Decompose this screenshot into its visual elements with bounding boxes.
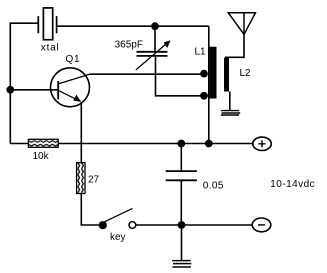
ground (supply side) [172, 261, 191, 267]
svg-text:Q1: Q1 [66, 54, 81, 65]
crystal xtal [38, 8, 56, 40]
wire: L1 vertical line from top rail to +V rail [208, 26, 210, 143]
wire: base wire [10, 89, 58, 91]
wire: minus rail junction down to ground [181, 225, 183, 260]
node: L1 line to +V rail [205, 140, 213, 148]
variable capacitor C1 365pF [136, 40, 171, 70]
+V rail wire [10, 143, 253, 145]
wire: L2 to ground [229, 92, 231, 111]
svg-text:10k: 10k [33, 151, 50, 162]
inductor L1 (coil bar) [210, 47, 217, 99]
wire: resistor 27 to key [81, 194, 99, 226]
resistor 10k [28, 139, 58, 147]
svg-text:key: key [110, 232, 126, 243]
inductor L2 (coil bar) [224, 58, 229, 92]
resistor 27 [77, 163, 85, 194]
terminal + (positive supply) [253, 137, 272, 150]
svg-text:365pF: 365pF [115, 40, 143, 51]
node: base junction on left rail [6, 86, 14, 94]
svg-text:xtal: xtal [41, 43, 60, 54]
key switch [99, 209, 136, 230]
wire: key to minus terminal rail [136, 224, 253, 226]
ground (antenna side) [221, 111, 240, 115]
node: top rail / 365pF junction [151, 22, 159, 30]
terminal - (negative supply) [252, 218, 271, 232]
wire: collector to upper L1 tap [90, 73, 207, 75]
wire: antenna lead to L2 [225, 35, 244, 58]
node: ground junction on minus rail [178, 221, 186, 229]
node: upper L1 tap [200, 70, 208, 78]
svg-text:L2: L2 [240, 68, 252, 79]
wire: junction down to 365pF top plate [154, 26, 156, 51]
svg-text:10-14vdc: 10-14vdc [270, 179, 315, 190]
wire: emitter down to resistor 27 [80, 102, 82, 163]
transistor Q1 [51, 68, 90, 107]
wire: crystal left lead and left vertical rail [10, 23, 38, 143]
antenna [228, 13, 255, 35]
wire: +V rail down to capacitor 0.05 [180, 144, 182, 172]
svg-text:0.05: 0.05 [203, 180, 224, 191]
svg-text:L1: L1 [195, 47, 207, 58]
wire: capacitor 0.05 to minus rail [180, 180, 182, 225]
svg-text:27: 27 [88, 174, 100, 185]
node: lower L1 tap [200, 92, 208, 100]
wire: 365pF bottom plate down and right to L1 tap [156, 57, 207, 96]
wire: top rail from crystal to L1 [57, 25, 209, 27]
node: +V rail capacitor junction [177, 140, 185, 148]
capacitor 0.05 [166, 171, 197, 180]
